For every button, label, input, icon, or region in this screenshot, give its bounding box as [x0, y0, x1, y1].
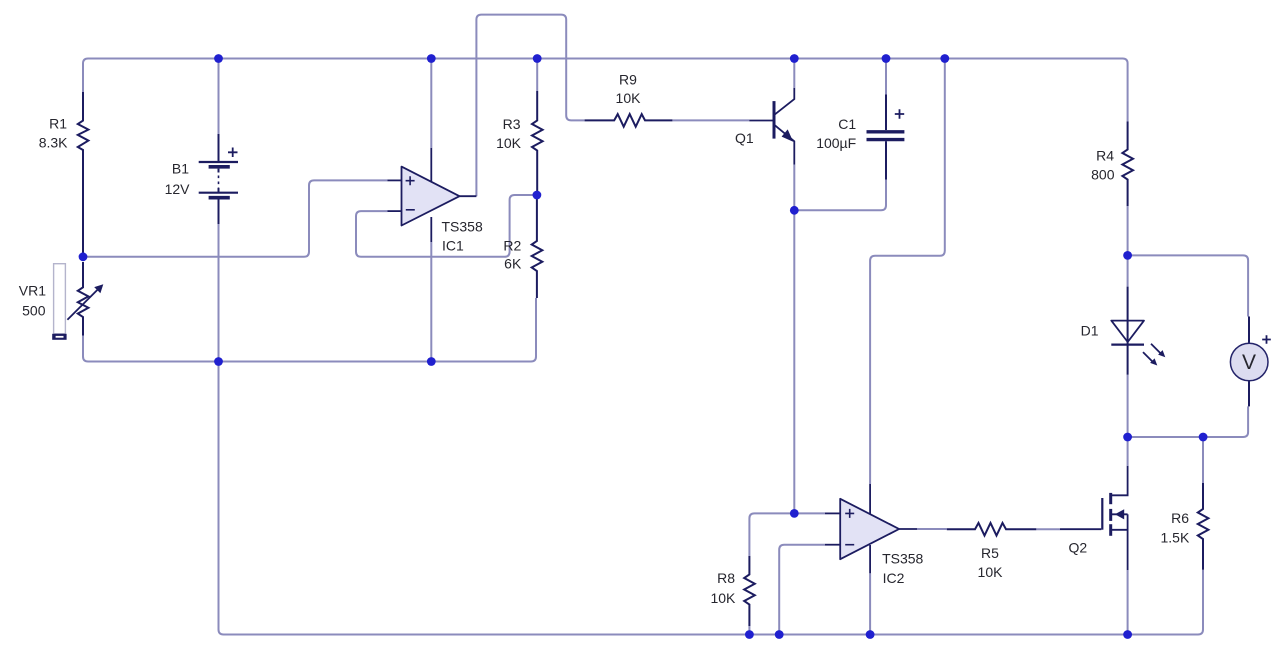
svg-text:B1: B1	[172, 161, 189, 177]
svg-text:100µF: 100µF	[816, 135, 856, 151]
svg-text:Q2: Q2	[1069, 540, 1088, 556]
resistor R2	[532, 195, 543, 298]
svg-text:R6: R6	[1171, 510, 1189, 526]
svg-text:IC1: IC1	[442, 238, 464, 254]
node R6 voltmeter	[1199, 433, 1208, 442]
transistor Q1	[735, 88, 794, 165]
resistor R6	[1198, 483, 1209, 570]
svg-text:R2: R2	[503, 238, 521, 254]
svg-text:Q1: Q1	[735, 130, 754, 146]
svg-text:10K: 10K	[978, 564, 1004, 580]
svg-text:800: 800	[1091, 166, 1115, 182]
wire voltmeter top	[1128, 255, 1249, 316]
wire IC2 V+ to top rail	[870, 59, 945, 485]
wire B1 bottom to bottom rail to R6	[219, 224, 1204, 635]
op-amp U1 IC1	[388, 148, 483, 254]
svg-text:V: V	[1242, 351, 1256, 374]
wire IC1 V- to mid rail	[430, 242, 432, 362]
svg-text:10K: 10K	[616, 90, 642, 106]
svg-text:8.3K: 8.3K	[39, 135, 68, 151]
node top rail R3	[533, 54, 542, 63]
wire C1 bottom to emitter node	[794, 180, 886, 211]
node R1 VR1 junction	[79, 252, 88, 261]
wire Q1 emitter down	[793, 165, 795, 211]
svg-text:R8: R8	[717, 570, 735, 586]
wire C1 top	[885, 59, 887, 95]
wire IC2 output to R5	[917, 528, 947, 530]
node R4 D1 voltmeter	[1123, 251, 1132, 260]
wire mid rail with VR1 and R2 drops	[83, 298, 536, 362]
wire IC1 V+ to top rail	[430, 59, 432, 149]
svg-text:R3: R3	[503, 116, 521, 132]
svg-text:6K: 6K	[504, 256, 522, 272]
svg-text:VR1: VR1	[19, 283, 46, 299]
node bottom rail R8	[745, 630, 754, 639]
wire B1 top	[218, 59, 220, 135]
svg-text:500: 500	[22, 303, 46, 319]
svg-text:D1: D1	[1081, 323, 1099, 339]
node top rail C1	[882, 54, 891, 63]
wire R8 bottom	[748, 626, 750, 635]
svg-text:12V: 12V	[165, 181, 191, 197]
svg-text:TS358: TS358	[882, 551, 923, 567]
svg-text:C1: C1	[838, 116, 856, 132]
wire D1 top	[1127, 255, 1129, 286]
svg-text:1.5K: 1.5K	[1160, 529, 1189, 545]
node top rail IC1 power	[427, 54, 436, 63]
wire R3 top	[536, 59, 538, 92]
wire IC2 minus input to bottom rail	[779, 545, 825, 635]
svg-text:10K: 10K	[496, 135, 522, 151]
resistor R1	[78, 92, 89, 253]
resistor R9	[585, 114, 673, 127]
capacitor C1	[867, 95, 905, 180]
svg-text:R4: R4	[1096, 147, 1114, 163]
wire R5 to Q2 gate	[1036, 528, 1060, 530]
wire emitter node down to IC2 plus node	[793, 210, 795, 513]
wire D1 bottom	[1127, 375, 1129, 437]
node mid rail IC1 power	[427, 357, 436, 366]
svg-text:R9: R9	[619, 72, 637, 88]
wire IC2 V- to bottom rail	[869, 573, 871, 634]
node mid rail B1	[214, 357, 223, 366]
battery B1	[199, 134, 238, 224]
wire IC1 minus input to R3 R2 node	[356, 195, 537, 257]
svg-text:R5: R5	[981, 545, 999, 561]
op-amp U2 IC2	[825, 484, 924, 586]
svg-text:IC2: IC2	[883, 570, 905, 586]
svg-text:R1: R1	[49, 115, 67, 131]
wire IC2 plus node to input and R8	[749, 513, 825, 556]
node top rail IC2 power	[940, 54, 949, 63]
LED D1	[1081, 287, 1166, 375]
wire voltmeter bottom	[1128, 406, 1249, 437]
node bottom rail IC2 minus	[775, 630, 784, 639]
node top rail B1	[214, 54, 223, 63]
node IC2 plus input	[790, 509, 799, 518]
MOSFET Q2	[1060, 466, 1128, 570]
wire node A to IC1 plus input	[83, 180, 388, 256]
node top rail Q1 collector	[790, 54, 799, 63]
resistor R5	[947, 523, 1037, 536]
wire Q2 source to bottom rail	[1127, 570, 1129, 635]
resistor R4	[1122, 122, 1133, 207]
wire R4 bottom	[1127, 206, 1129, 255]
node Q1 emitter C1	[790, 206, 799, 215]
wire top rail with R1 and R4 drops	[83, 59, 1128, 122]
wire IC1 output jog to R9	[476, 15, 584, 197]
node bottom rail Q2 source	[1123, 630, 1132, 639]
potentiometer VR1	[67, 262, 97, 336]
wire R9 to Q1 base	[672, 119, 749, 121]
slider track of VR1	[54, 264, 66, 334]
wire Q1 collector to top rail	[793, 59, 795, 89]
wire Q2 drain top	[1127, 437, 1129, 466]
svg-text:10K: 10K	[710, 590, 736, 606]
node D1 Q2 drain	[1123, 433, 1132, 442]
node bottom rail IC2 power	[866, 630, 875, 639]
voltmeter V	[1230, 317, 1270, 407]
slider handle of VR1	[52, 334, 66, 340]
node R3 R2 junction	[533, 191, 542, 200]
resistor R8	[744, 556, 755, 626]
resistor R3	[532, 91, 543, 195]
svg-text:TS358: TS358	[442, 219, 483, 235]
wire R6 top	[1202, 437, 1204, 483]
